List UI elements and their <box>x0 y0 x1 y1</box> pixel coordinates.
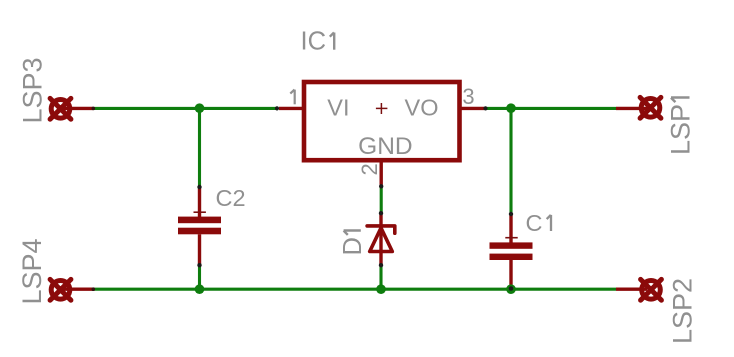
svg-text:LSP2: LSP2 <box>668 278 698 344</box>
wire net top-left (LSP3 to pin 1) <box>93 107 276 110</box>
svg-text:VO: VO <box>405 95 439 121</box>
pin connection dot LSP3 <box>92 107 96 111</box>
pin connection dot C2 bottom <box>197 263 201 267</box>
zener diode D1 <box>367 214 395 266</box>
label LSP1 <box>666 98 696 156</box>
pin connection dot LSP4 <box>92 287 96 291</box>
wire net right vertical (to C1) <box>509 108 512 289</box>
wire net top-right (pin 3 to LSP1) <box>487 107 616 110</box>
junction node rail-C2 <box>195 284 205 294</box>
pin connection dot pin3 <box>483 106 487 110</box>
pin connection dot D1 bottom <box>379 263 383 267</box>
IC1 plus symbol <box>376 103 388 114</box>
svg-text:3: 3 <box>462 84 474 109</box>
pin connection dot D1 top <box>379 211 383 215</box>
svg-text:D: D <box>339 237 367 255</box>
junction node top-right <box>506 103 516 113</box>
junction node rail-C1 <box>506 284 516 294</box>
svg-text:VI: VI <box>327 95 349 121</box>
solder pad LSP4 <box>50 279 93 300</box>
capacitor C2 <box>178 188 221 265</box>
svg-text:C: C <box>526 210 543 236</box>
solder pad LSP2 <box>616 279 661 300</box>
label C1 <box>526 210 552 236</box>
svg-text:IC: IC <box>301 28 327 56</box>
junction node top-left <box>195 103 205 113</box>
pin connection dot pin1 <box>275 106 279 110</box>
wire net middle vertical (pin 2 to D1, D1 to rail) <box>379 187 382 290</box>
svg-text:C2: C2 <box>216 185 246 211</box>
IC1 voltage regulator box <box>279 82 484 185</box>
svg-text:LSP3: LSP3 <box>18 57 48 123</box>
IC1 reference label <box>301 28 335 56</box>
label D1 <box>339 231 367 256</box>
wire net bottom rail (LSP4 to LSP2) <box>93 288 616 291</box>
pin connection dot pin2-wire <box>379 184 383 188</box>
junction node rail-D1 <box>376 284 386 294</box>
solder pad LSP3 <box>50 98 93 119</box>
svg-text:LSP: LSP <box>666 104 696 155</box>
svg-text:2: 2 <box>357 163 382 175</box>
pin 1 label <box>290 90 294 105</box>
svg-text:LSP4: LSP4 <box>17 238 47 304</box>
wire net left vertical (to C2) <box>198 108 201 289</box>
capacitor C1 <box>490 215 533 285</box>
pin connection dot C1 bottom <box>509 286 514 291</box>
pin connection dot C2 top <box>197 185 201 189</box>
svg-text:GND: GND <box>358 133 412 160</box>
pin connection dot C1 top <box>509 212 513 216</box>
solder pad LSP1 <box>616 97 661 118</box>
